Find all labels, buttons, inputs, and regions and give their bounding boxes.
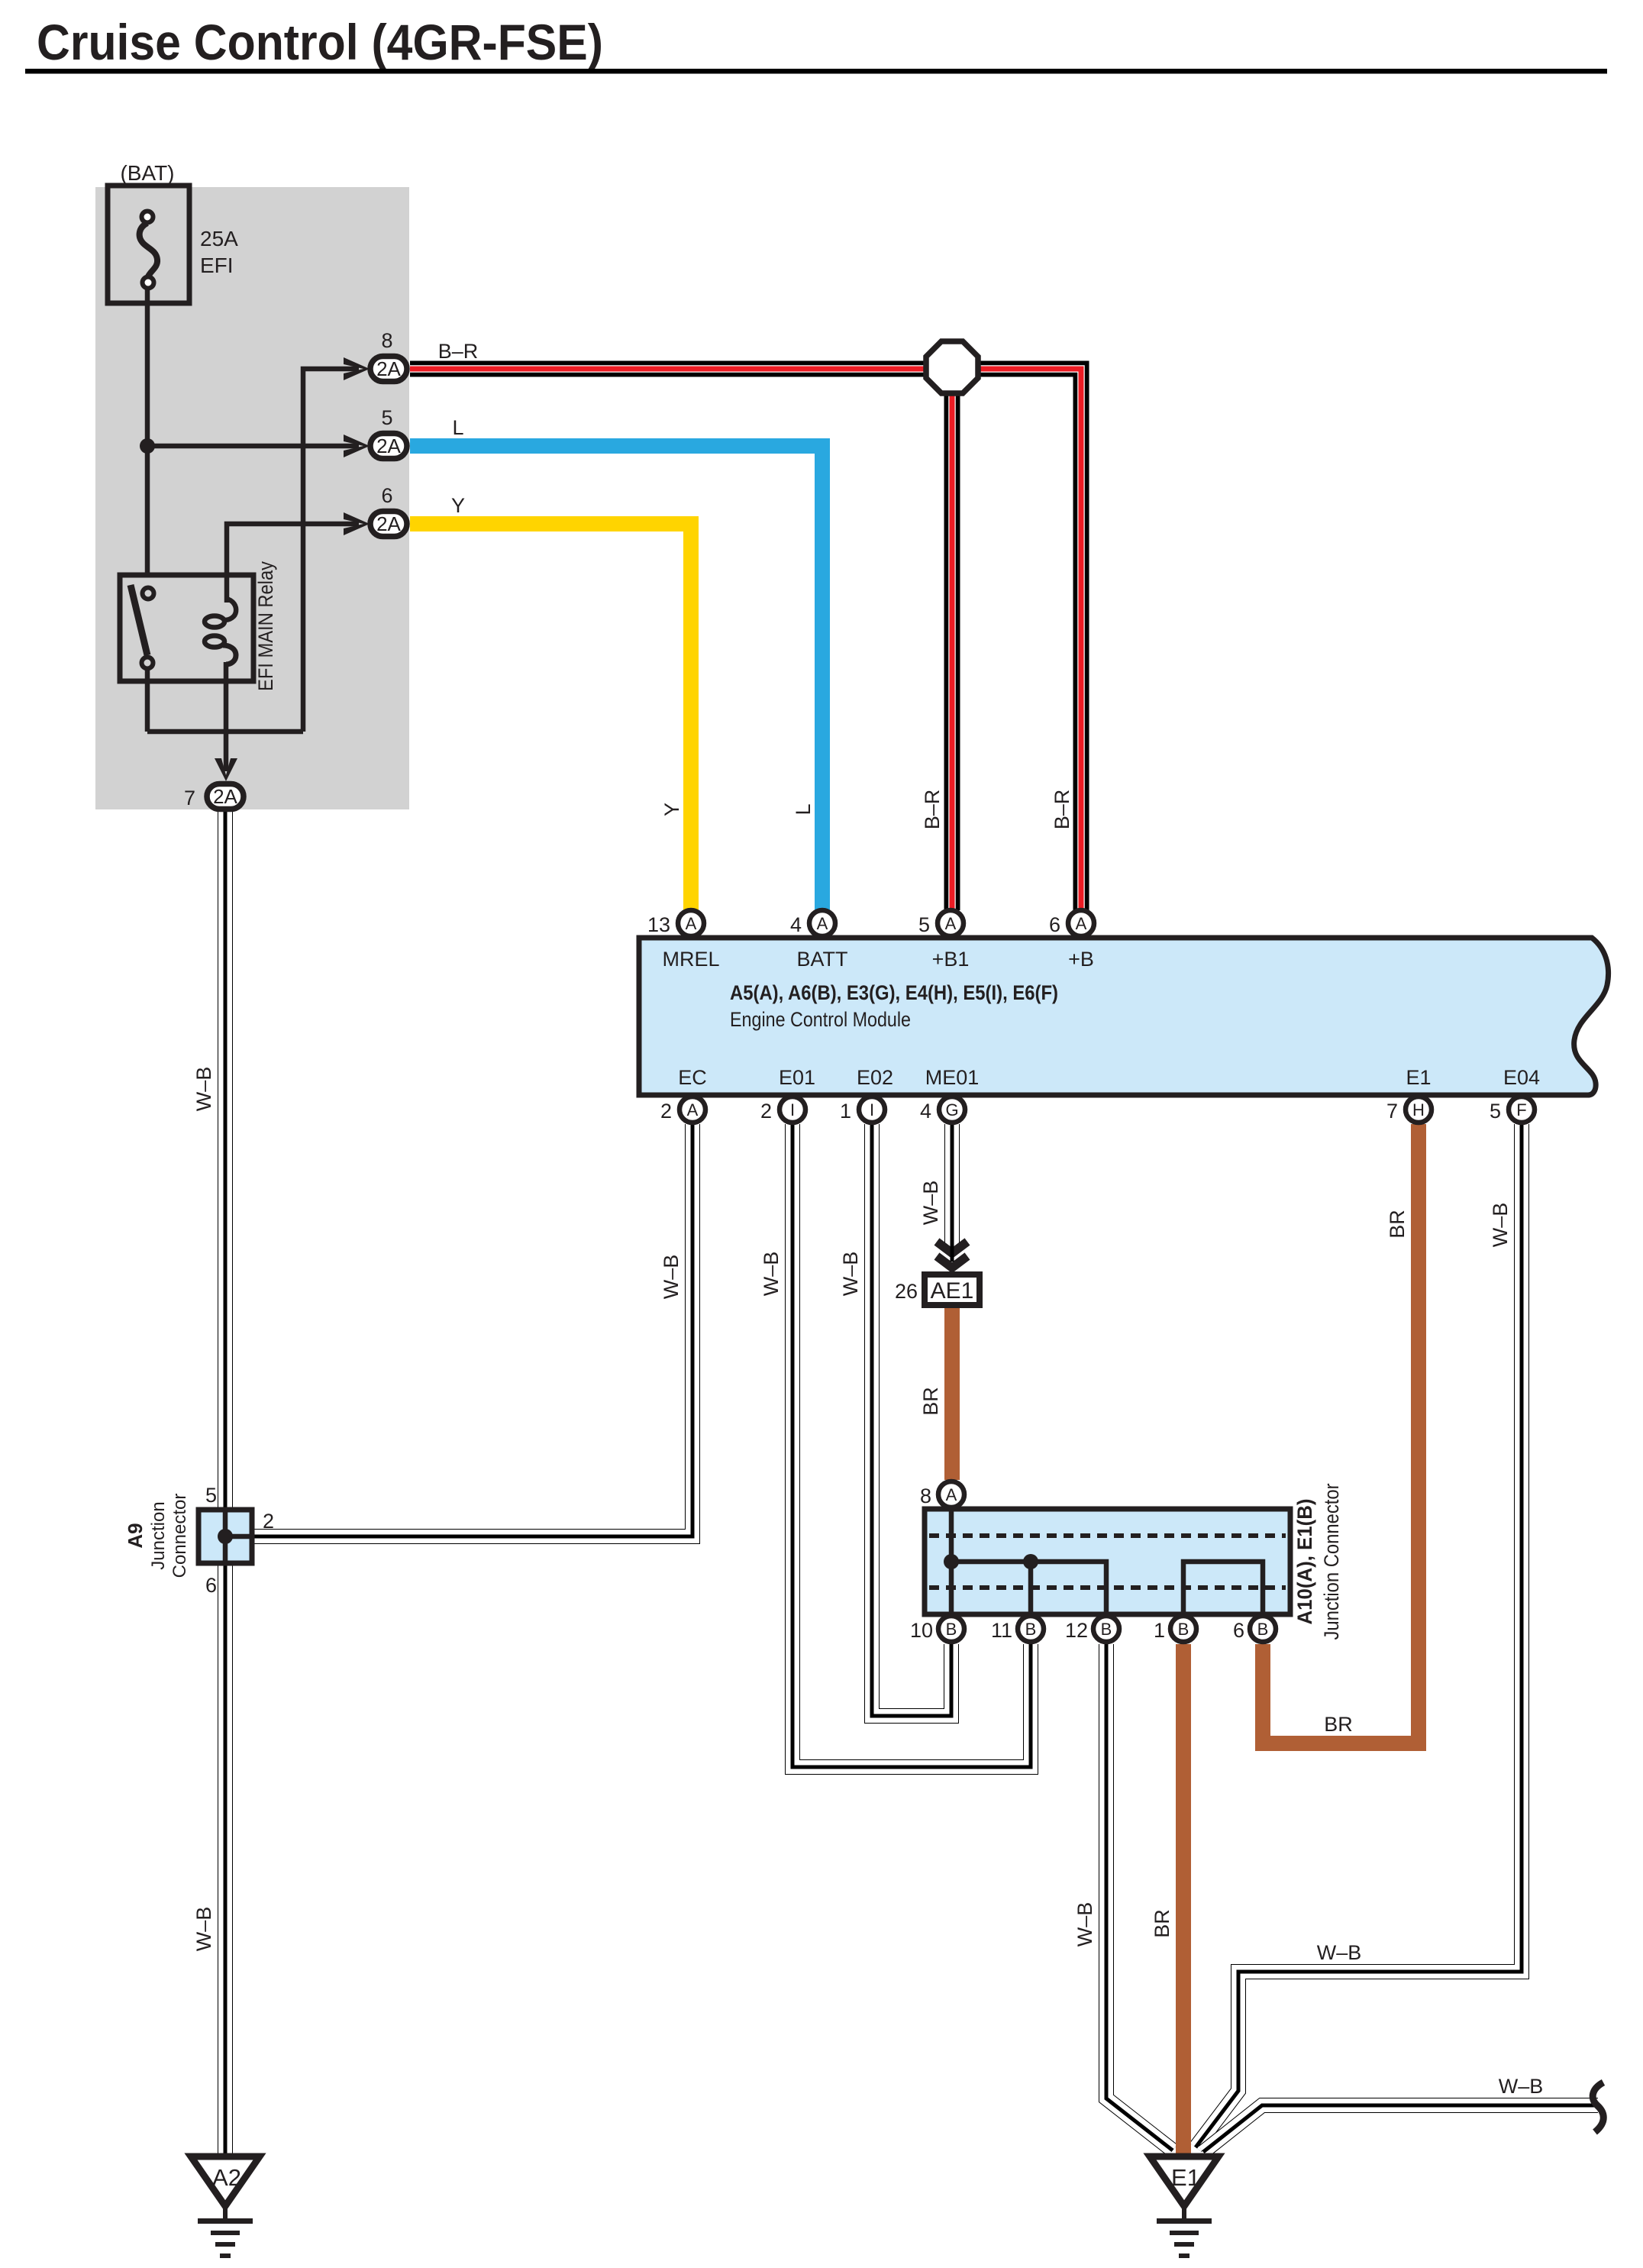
svg-text:A: A (817, 914, 828, 933)
svg-text:B: B (946, 1620, 957, 1639)
wire W-B connector 2A pin 7 through A9 to ground A2 (218, 812, 233, 2157)
svg-text:W–B: W–B (192, 1907, 215, 1952)
connector AE1 (26) (925, 1275, 980, 1305)
svg-text:W–B: W–B (839, 1252, 862, 1297)
junction connector pin 8 A (938, 1481, 964, 1507)
wire BR AE1 to junction connector pin A (944, 1304, 960, 1480)
junction dot B (1023, 1554, 1038, 1569)
svg-text:E1: E1 (1406, 1066, 1431, 1089)
svg-text:W–B: W–B (192, 1067, 215, 1112)
wire relay switch to bottom rail (145, 666, 150, 732)
svg-text:BATT: BATT (797, 948, 848, 971)
ECM pin ME01 (4 G) (939, 1097, 965, 1123)
svg-text:5: 5 (381, 406, 392, 429)
svg-text:2: 2 (263, 1510, 274, 1533)
svg-text:8: 8 (381, 329, 392, 352)
svg-text:B–R: B–R (438, 340, 479, 363)
wire W-B junction connector pin 12 to ground E1 (1106, 1644, 1173, 2150)
octagon junction on B-R wire (926, 341, 978, 393)
ground E1 (1150, 2157, 1219, 2258)
junction connector pin 11 B (1018, 1616, 1044, 1642)
svg-text:B–R: B–R (921, 790, 944, 830)
wire relay bottom rail (147, 729, 303, 735)
relay EFI MAIN Relay (120, 575, 253, 681)
ECM Engine Control Module box (639, 938, 1609, 1095)
svg-text:W–B: W–B (1489, 1203, 1512, 1248)
svg-text:Y: Y (660, 803, 683, 816)
svg-text:BR: BR (919, 1387, 942, 1416)
svg-text:E01: E01 (779, 1066, 815, 1089)
svg-text:I: I (790, 1100, 795, 1119)
title underline (25, 69, 1607, 74)
svg-text:W–B: W–B (660, 1255, 683, 1300)
junction connector internal wires (951, 1509, 1263, 1614)
wire to connector 2A pin 8 (303, 369, 359, 732)
svg-text:6: 6 (1233, 1619, 1244, 1642)
svg-text:BR: BR (1151, 1909, 1173, 1938)
wire B-R from octagon junction to ECM +B1 (944, 369, 960, 910)
svg-text:2A: 2A (376, 357, 401, 380)
svg-text:A9: A9 (124, 1523, 147, 1548)
svg-text:W–B: W–B (1317, 1941, 1362, 1964)
svg-text:B: B (1257, 1620, 1269, 1639)
junction connector pin 1 B (1170, 1616, 1196, 1642)
wire W-B core into arrow (951, 1245, 954, 1262)
arrow into connector 2A pin 8 (344, 357, 370, 380)
wire relay coil to connector 2A pin 7 (224, 662, 229, 771)
A9 internal wires (225, 1510, 252, 1563)
svg-text:+B: +B (1068, 948, 1094, 971)
svg-text:BR: BR (1386, 1210, 1409, 1239)
svg-text:7: 7 (1386, 1100, 1398, 1123)
svg-text:B: B (1025, 1620, 1037, 1639)
svg-text:(BAT): (BAT) (120, 161, 174, 185)
svg-text:AE1: AE1 (931, 1278, 974, 1304)
svg-text:Y: Y (451, 494, 465, 517)
svg-text:A: A (687, 1100, 699, 1119)
svg-text:EFI MAIN Relay: EFI MAIN Relay (254, 561, 277, 691)
svg-text:Junction Connector: Junction Connector (1320, 1483, 1343, 1640)
relay/fuse block background (95, 187, 409, 809)
svg-text:Connector: Connector (169, 1494, 190, 1578)
svg-text:4: 4 (920, 1100, 931, 1123)
svg-text:G: G (945, 1100, 958, 1119)
svg-text:EC: EC (678, 1066, 707, 1089)
wire BR junction connector pin 1 to ground E1 (1176, 1644, 1191, 2167)
svg-text:5: 5 (918, 913, 930, 936)
svg-text:W–B: W–B (919, 1181, 942, 1226)
svg-text:10: 10 (910, 1619, 933, 1642)
connector 2A pin 6 (370, 512, 407, 537)
svg-text:2A: 2A (376, 435, 401, 457)
wire junction to connector 2A pin 5 (147, 444, 359, 449)
connector 2A pin 8 (370, 357, 407, 382)
wire W-B continuation to ground E1 (1203, 2105, 1598, 2152)
continuation mark on W-B wire (1593, 2082, 1603, 2132)
svg-text:MREL: MREL (662, 948, 719, 971)
svg-text:25A: 25A (200, 227, 238, 250)
svg-text:B: B (1178, 1620, 1189, 1639)
wire W-B ECM E01 to junction connector pin 11 (792, 1124, 1031, 1767)
connector 2A pin 7 (207, 784, 244, 809)
junction connector A10(A), E1(B) box (925, 1509, 1290, 1614)
svg-text:Cruise Control (4GR-FSE): Cruise Control (4GR-FSE) (37, 14, 603, 70)
junction dot fuse line (140, 438, 155, 454)
junction dot A9 (218, 1529, 233, 1544)
svg-text:12: 12 (1065, 1619, 1088, 1642)
svg-text:E04: E04 (1503, 1066, 1540, 1089)
svg-text:26: 26 (895, 1280, 918, 1303)
svg-text:F: F (1516, 1100, 1526, 1119)
svg-text:B: B (1101, 1620, 1112, 1639)
ECM pin MREL (13 A) (678, 910, 704, 936)
wire W-B ECM E04 to ground E1 (1196, 1124, 1522, 2147)
ECM pin E04 (5 F) (1509, 1097, 1535, 1123)
svg-text:2: 2 (660, 1100, 672, 1123)
svg-text:A: A (946, 1485, 957, 1504)
ECM pin E01 (2 I) (780, 1097, 805, 1123)
ground A2 (191, 2157, 260, 2258)
svg-text:6: 6 (205, 1574, 217, 1597)
svg-text:I: I (870, 1100, 874, 1119)
ECM pin +B (6 A) (1068, 910, 1094, 936)
svg-text:6: 6 (1049, 913, 1060, 936)
ECM pin BATT (4 A) (809, 910, 835, 936)
svg-text:E02: E02 (857, 1066, 893, 1089)
junction connector bus dashed lines (929, 1536, 1286, 1588)
svg-text:+B1: +B1 (932, 948, 970, 971)
svg-text:2A: 2A (213, 785, 237, 808)
junction dot A (944, 1554, 959, 1569)
junction connector pin 10 B (938, 1616, 964, 1642)
svg-text:W–B: W–B (1499, 2075, 1544, 2098)
svg-text:A10(A), E1(B): A10(A), E1(B) (1293, 1499, 1316, 1625)
svg-text:W–B: W–B (1073, 1902, 1096, 1947)
svg-text:A5(A), A6(B), E3(G), E4(H), E5: A5(A), A6(B), E3(G), E4(H), E5(I), E6(F) (730, 981, 1058, 1004)
wire to connector 2A pin 6 / relay coil (227, 524, 359, 603)
fuse 25A EFI (108, 186, 189, 303)
ECM pin E02 (1 I) (859, 1097, 885, 1123)
ECM pin E1 (7 H) (1406, 1097, 1432, 1123)
connector 2A pin 5 (370, 434, 407, 459)
svg-text:5: 5 (1490, 1100, 1501, 1123)
svg-text:W–B: W–B (760, 1252, 783, 1297)
wire L from connector 2A pin 5 to ECM BATT (410, 446, 822, 910)
svg-text:8: 8 (920, 1485, 931, 1507)
wire Y from connector 2A pin 6 to ECM MREL (410, 524, 691, 910)
svg-text:7: 7 (184, 787, 195, 809)
svg-text:BR: BR (1324, 1713, 1353, 1736)
svg-text:Junction: Junction (148, 1501, 169, 1569)
svg-text:4: 4 (790, 913, 802, 936)
svg-text:L: L (792, 803, 815, 815)
svg-text:L: L (452, 416, 463, 439)
wire W-B ECM ME01 to AE1 (944, 1124, 960, 1248)
wire W-B ECM E02 to junction connector pin 10 (872, 1124, 951, 1716)
svg-text:EFI: EFI (200, 254, 234, 277)
svg-text:E1: E1 (1171, 2164, 1200, 2191)
arrow into connector 2A pin 5 (344, 435, 370, 457)
ECM pin +B1 (5 A) (938, 910, 964, 936)
arrow into connector 2A pin 6 (344, 512, 370, 535)
svg-text:2A: 2A (376, 512, 401, 535)
svg-text:A: A (1076, 914, 1087, 933)
svg-text:Engine Control Module: Engine Control Module (730, 1008, 911, 1031)
double chevron arrow into AE1 (937, 1242, 967, 1268)
junction connector A9 box (199, 1510, 252, 1563)
wire fuse to relay switch (145, 288, 150, 575)
svg-text:1: 1 (1154, 1619, 1165, 1642)
svg-text:ME01: ME01 (925, 1066, 980, 1089)
svg-text:A: A (686, 914, 697, 933)
svg-text:5: 5 (205, 1484, 217, 1507)
wire BR junction connector pin 6 to ECM E1 (1263, 1124, 1419, 1743)
svg-text:A: A (945, 914, 957, 933)
ECM pin EC (2 A) (679, 1097, 705, 1123)
arrow into connector 2A pin 7 (215, 758, 237, 781)
wire B-R from connector 2A pin 8 to ECM +B (410, 369, 1081, 910)
svg-text:6: 6 (381, 484, 392, 507)
svg-text:13: 13 (647, 913, 670, 936)
junction connector pin 12 B (1093, 1616, 1119, 1642)
svg-text:A2: A2 (212, 2164, 241, 2191)
svg-text:H: H (1412, 1100, 1425, 1119)
svg-text:2: 2 (760, 1100, 772, 1123)
svg-text:11: 11 (991, 1619, 1012, 1642)
svg-text:1: 1 (840, 1100, 851, 1123)
svg-text:B–R: B–R (1051, 790, 1073, 830)
wire W-B ECM EC to A9 junction connector (252, 1124, 692, 1536)
junction connector pin 6 B (1250, 1616, 1276, 1642)
